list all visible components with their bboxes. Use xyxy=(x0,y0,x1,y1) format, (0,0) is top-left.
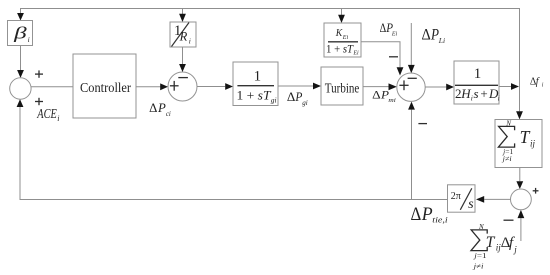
svg-text:f: f xyxy=(536,76,540,87)
svg-text:+: + xyxy=(480,86,487,101)
wire: drop into beta block xyxy=(20,9,22,14)
sign + top input of ACE junction xyxy=(35,70,43,77)
wire: top frequency feedback bus with right-side drop xyxy=(20,9,520,112)
block 2pi/s xyxy=(448,185,476,212)
svg-text:i: i xyxy=(189,37,191,46)
arrowhead into inertia block xyxy=(446,84,454,91)
arrowhead into 1/R block xyxy=(179,14,186,22)
block 1/(2H_i s + D_i) xyxy=(454,61,499,104)
svg-text:Li: Li xyxy=(438,36,445,45)
wire: frequency junction to inertia block xyxy=(425,86,446,88)
arrowhead into ACE junction top xyxy=(17,70,24,78)
arrowhead into governor junction xyxy=(160,83,168,90)
svg-text:j≠i: j≠i xyxy=(502,155,512,163)
svg-text:ACE: ACE xyxy=(37,106,58,121)
wire: turbine output to frequency junction xyxy=(363,86,389,88)
sign - K_Ei feedback input xyxy=(389,56,398,58)
label dP_tie,i xyxy=(411,204,449,225)
svg-text:Δ: Δ xyxy=(372,89,381,101)
svg-text:Ei: Ei xyxy=(352,51,359,57)
wire: drop into 1/R block xyxy=(182,9,184,15)
block 1/R_i xyxy=(170,22,196,47)
arrowhead K feedback into frequency junction xyxy=(397,67,404,75)
label dP_gi xyxy=(287,90,308,107)
label external sum of T_ij df_j xyxy=(471,223,517,270)
block K_Ei/(1+sT_Ei) xyxy=(324,23,361,57)
summing junction ACE (left) xyxy=(10,78,31,99)
svg-text:T: T xyxy=(486,234,496,251)
svg-text:ci: ci xyxy=(166,111,171,118)
label dP_Ei xyxy=(380,21,398,37)
wire: tie junction output to 2pi/s block xyxy=(484,198,510,200)
svg-text:1 + sT: 1 + sT xyxy=(326,43,354,55)
svg-text:β: β xyxy=(13,24,28,43)
arrowhead into turbine xyxy=(313,83,321,90)
svg-text:1: 1 xyxy=(474,66,482,82)
arrowhead dP_Li into frequency junction xyxy=(408,65,415,73)
wire: inertia output to frequency node xyxy=(499,86,511,88)
arrowhead into beta block xyxy=(17,13,24,21)
svg-text:mi: mi xyxy=(388,97,396,104)
sign + tie junction top input xyxy=(533,188,539,194)
svg-text:i: i xyxy=(28,35,30,44)
svg-text:i: i xyxy=(57,114,59,123)
wire: drop into K_Ei block xyxy=(341,9,343,16)
arrowhead up into ACE junction bottom xyxy=(17,99,24,107)
arrowhead into frequency junction xyxy=(389,83,397,90)
svg-text:i: i xyxy=(498,94,500,103)
sign + bottom input of ACE junction xyxy=(35,98,43,105)
block governor 1/(1+sT_gi) xyxy=(233,62,278,106)
svg-text:Turbine: Turbine xyxy=(325,80,360,95)
wire: beta output down to ACE summing junction xyxy=(20,46,22,71)
arrowhead up into tie junction bottom xyxy=(518,210,525,218)
svg-text:Δ: Δ xyxy=(411,204,422,225)
sign + inside junction (turbine input) xyxy=(399,80,408,90)
svg-text:Ei: Ei xyxy=(391,31,398,37)
arrowhead up into frequency junction bottom xyxy=(408,102,415,110)
wire: sum block output down to tie summing junction xyxy=(519,168,521,182)
svg-text:Ei: Ei xyxy=(342,35,349,41)
svg-text:1 + sT: 1 + sT xyxy=(237,87,272,102)
block Turbine xyxy=(321,67,363,105)
svg-text:R: R xyxy=(179,30,188,44)
svg-text:j: j xyxy=(513,245,517,255)
arrowhead into governor junction top xyxy=(179,64,186,72)
svg-text:ij: ij xyxy=(530,139,536,149)
arrowhead into K_Ei block xyxy=(338,15,345,23)
summing junction frequency (main) xyxy=(397,73,425,101)
svg-text:Δ: Δ xyxy=(287,90,295,104)
label ACE_i xyxy=(37,106,60,123)
svg-text:j≠i: j≠i xyxy=(472,262,483,270)
sign - tie junction bottom input xyxy=(504,219,514,221)
arrowhead into governor block xyxy=(225,83,233,90)
wire: ACE junction output to Controller xyxy=(31,86,73,88)
svg-text:Δ: Δ xyxy=(149,101,157,115)
svg-text:N: N xyxy=(478,223,484,231)
arrowhead into sum T_ij block xyxy=(516,111,523,119)
wire: external sum input up into tie junction xyxy=(520,218,522,241)
svg-text:2π: 2π xyxy=(451,191,461,202)
arrowhead at frequency node xyxy=(511,83,519,90)
arrowhead into tie junction top xyxy=(516,181,523,189)
wire: K_Ei output right and down into frequency junction xyxy=(361,42,400,68)
wire: governor block output to turbine xyxy=(278,85,313,87)
summing junction tie-line (bottom right) xyxy=(511,189,532,210)
svg-text:i: i xyxy=(542,83,544,89)
svg-text:Δ: Δ xyxy=(422,27,431,44)
sign - tie-line input below junction xyxy=(418,123,427,125)
label dP_mi xyxy=(372,89,396,104)
label df_i xyxy=(530,76,544,88)
wire: load disturbance dP_Li input xyxy=(410,23,412,65)
wire: tie-line power signal back to ACE junction xyxy=(20,107,448,200)
block sum T_ij xyxy=(495,120,542,168)
svg-text:T: T xyxy=(520,127,531,147)
label dP_ci xyxy=(149,101,171,118)
svg-text:gi: gi xyxy=(271,95,277,104)
svg-text:1: 1 xyxy=(254,69,262,85)
svg-text:s: s xyxy=(468,196,474,211)
svg-text:H: H xyxy=(460,86,471,101)
sign - inside junction (top) xyxy=(408,77,417,79)
block beta_i xyxy=(8,21,33,46)
arrowhead into 2pi/s block xyxy=(476,196,484,203)
svg-text:N: N xyxy=(505,120,511,128)
summing junction governor xyxy=(168,72,197,101)
svg-text:P: P xyxy=(421,204,433,225)
block Controller xyxy=(73,54,136,118)
svg-text:j=1: j=1 xyxy=(473,252,487,260)
sign + inside junction (controller input) xyxy=(170,81,179,91)
svg-text:tie,i: tie,i xyxy=(432,215,448,225)
svg-text:Controller: Controller xyxy=(80,81,131,96)
sign - inside junction (droop input) xyxy=(178,77,188,79)
svg-text:P: P xyxy=(157,101,166,115)
wire: Controller output to governor summing junction xyxy=(136,86,161,88)
wire: governor junction to governor block xyxy=(197,86,225,88)
label dP_Li xyxy=(422,27,446,46)
svg-text:s: s xyxy=(474,86,479,101)
svg-text:gi: gi xyxy=(302,99,308,107)
wire: tie-line feedback branch up into frequency junction xyxy=(411,110,413,200)
wire: 1/R output down to governor junction xyxy=(182,47,184,64)
